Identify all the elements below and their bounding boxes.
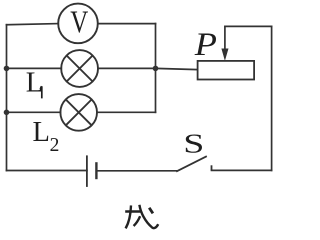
wire left vertical [6, 25, 8, 171]
wire voltmeter to right collector [98, 23, 156, 25]
caption character Wu stroke inner falling [134, 216, 141, 226]
battery short plate [95, 162, 97, 179]
svg-text:2: 2 [50, 135, 60, 156]
node junction dot left L2 [4, 110, 10, 116]
caption character Wu stroke dot [149, 208, 153, 214]
caption character Wu stroke slant hook [139, 205, 158, 228]
switch S contact tick [211, 165, 213, 170]
battery long plate [86, 155, 88, 187]
wire L1 branch right [98, 67, 156, 69]
lamp L2 [60, 94, 97, 131]
wire battery to switch [97, 170, 177, 172]
wire bottom left to battery [7, 170, 87, 172]
rheostat P wiper arrow [222, 26, 228, 59]
node junction dot right collector [153, 66, 159, 72]
label L1 [26, 67, 43, 98]
node junction dot left L1 [4, 66, 10, 72]
svg-text:L: L [26, 67, 43, 98]
wire top left to voltmeter [7, 24, 59, 25]
wire right collector vertical [155, 24, 157, 113]
caption character Wu (戊) stroke horizontal [125, 210, 142, 212]
switch S blade [176, 156, 207, 171]
label L2 [33, 117, 60, 156]
wire right vertical [271, 26, 273, 170]
svg-text:V: V [70, 5, 88, 40]
caption character Wu stroke left falling [126, 205, 131, 228]
wire L2 branch right [97, 111, 156, 113]
rheostat P body [198, 61, 255, 80]
wire L1 branch left [7, 67, 62, 69]
svg-text:S: S [183, 129, 204, 160]
wire node to rheostat [156, 68, 198, 69]
lamp L1 [61, 50, 98, 87]
wire top right to wiper [225, 25, 272, 27]
label S [183, 129, 204, 160]
svg-text:P: P [194, 25, 217, 62]
wire switch right segment [212, 169, 272, 171]
voltmeter V1 circle [58, 4, 98, 44]
svg-text:L: L [33, 117, 50, 148]
wire L2 branch left [7, 111, 61, 113]
label P [194, 25, 217, 62]
